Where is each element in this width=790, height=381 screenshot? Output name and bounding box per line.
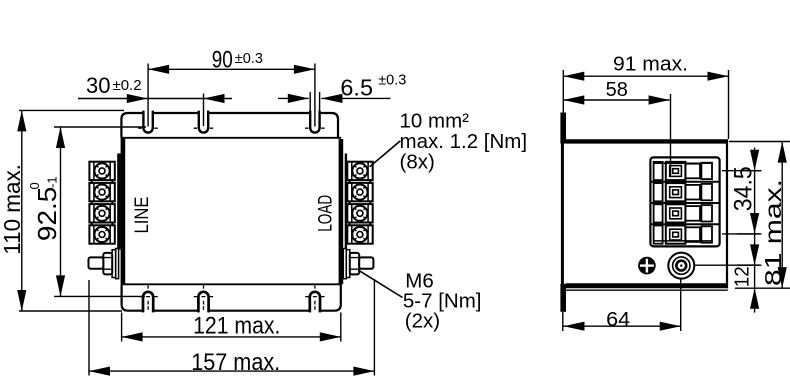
svg-text:90: 90 bbox=[212, 46, 233, 73]
phillips screw bbox=[639, 258, 655, 274]
svg-text:±0.3: ±0.3 bbox=[235, 51, 263, 67]
top slot 2 centre marks bbox=[194, 127, 214, 129]
svg-text:30: 30 bbox=[86, 73, 110, 98]
svg-text:-1: -1 bbox=[45, 176, 60, 188]
left terminal 2 bbox=[89, 183, 114, 201]
top slot 2 bbox=[200, 111, 207, 115]
side terminal block outline bbox=[650, 157, 719, 246]
left terminal block base plate bbox=[117, 154, 121, 250]
svg-text:max. 1.2 [Nm]: max. 1.2 [Nm] bbox=[400, 130, 528, 153]
svg-text:81 max.: 81 max. bbox=[760, 179, 786, 286]
top slot 1 bbox=[145, 111, 152, 115]
right M6 stud washers bbox=[343, 249, 346, 279]
right M6 stud shaft bbox=[359, 257, 373, 268]
left M6 stud washers bbox=[116, 249, 119, 279]
right M6 stud nut bbox=[350, 253, 359, 275]
svg-text:(8x): (8x) bbox=[400, 151, 435, 174]
svg-text:LINE: LINE bbox=[132, 197, 153, 234]
leader 10mm2 bbox=[370, 141, 401, 167]
dimension 64 line bbox=[564, 325, 681, 327]
bottom slot 1 bbox=[144, 308, 151, 312]
leader M6 bbox=[359, 270, 403, 297]
side body right edge bbox=[726, 140, 728, 289]
svg-text:110 max.: 110 max. bbox=[0, 164, 25, 255]
side terminal row separators bbox=[652, 182, 720, 224]
bottom slot 1 centre marks bbox=[138, 285, 157, 309]
flange bottom extension line right bbox=[735, 287, 790, 289]
svg-text:±0.2: ±0.2 bbox=[113, 77, 142, 94]
top slot 3 bbox=[311, 111, 318, 115]
dimension 64 extension lines bbox=[563, 280, 681, 332]
dimension 92.5 line bbox=[60, 127, 62, 296]
svg-text:64: 64 bbox=[606, 309, 630, 331]
dimension 92.5 extension lines bbox=[54, 127, 146, 296]
bottom mounting flange bbox=[122, 284, 341, 310]
svg-text:58: 58 bbox=[606, 79, 628, 101]
dimension 34.5 and 12 line bbox=[754, 148, 756, 313]
left terminal 3 bbox=[89, 204, 114, 222]
dimension 91 max. line bbox=[563, 75, 728, 77]
svg-text:12: 12 bbox=[732, 266, 754, 287]
body top line bbox=[121, 137, 341, 139]
dimension 81 max. line bbox=[781, 142, 783, 289]
dimension 110 max. extension lines bbox=[19, 110, 124, 311]
dimension 90 extension lines slot1 slot3 bbox=[148, 64, 315, 127]
top slot 1 centre marks bbox=[138, 127, 157, 129]
side mounting flange bar bbox=[560, 113, 566, 144]
top mounting flange bbox=[121, 113, 338, 138]
left terminal 4 bbox=[89, 225, 114, 243]
dimension 58 extension line bbox=[670, 94, 672, 176]
stud centre extension line bbox=[695, 264, 762, 266]
bottom slot 3 centre marks bbox=[305, 285, 325, 309]
dimension 6.5 line bbox=[278, 97, 390, 99]
svg-text:0: 0 bbox=[27, 182, 42, 189]
svg-text:91 max.: 91 max. bbox=[613, 53, 688, 76]
body right edge bbox=[339, 139, 344, 284]
side base plate bottom line bbox=[565, 289, 727, 291]
side terminal row 1 bbox=[654, 162, 712, 180]
side terminal row 3 bbox=[654, 204, 712, 222]
right terminal 4 bbox=[347, 225, 372, 243]
dimension 6.5 extension lines bbox=[310, 92, 319, 113]
bottom slot 2 bbox=[200, 308, 207, 312]
svg-text:157 max.: 157 max. bbox=[191, 349, 280, 376]
dimension 157 extension lines bbox=[89, 279, 374, 376]
side body top edge bbox=[565, 139, 727, 143]
right terminal 3 bbox=[347, 204, 372, 222]
svg-text:10 mm²: 10 mm² bbox=[400, 109, 470, 132]
left terminal 1 bbox=[89, 162, 114, 180]
svg-text:34.5: 34.5 bbox=[730, 166, 758, 211]
dimension 90 line bbox=[148, 68, 315, 70]
right terminal 1 bbox=[347, 162, 372, 180]
terminal gap bridges bbox=[92, 163, 113, 243]
side terminal row 2 bbox=[654, 183, 712, 201]
left M6 stud nut bbox=[103, 253, 112, 275]
body top extension line right bbox=[729, 141, 790, 143]
top slot 3 centre marks bbox=[305, 127, 325, 129]
stud end view bbox=[668, 253, 694, 279]
bottom slot 3 bbox=[311, 308, 318, 312]
dimension 91 max. extension lines bbox=[563, 70, 728, 139]
dimension 121 extension lines bbox=[122, 313, 341, 342]
row extension lines right bbox=[722, 171, 762, 234]
dimension 157 line bbox=[89, 370, 374, 372]
dimension 58 line bbox=[563, 99, 669, 101]
right terminal block base plate bbox=[345, 154, 347, 250]
svg-text:6.5: 6.5 bbox=[340, 74, 373, 100]
bottom slot 2 centre marks bbox=[194, 285, 214, 309]
side body bottom edge bbox=[565, 283, 727, 288]
dimension 30 line bbox=[78, 98, 232, 100]
side terminal row 4 bbox=[654, 226, 712, 244]
right terminal 2 bbox=[347, 183, 372, 201]
dimension 110 max. line bbox=[21, 110, 23, 311]
svg-text:(2x): (2x) bbox=[405, 309, 440, 332]
svg-text:±0.3: ±0.3 bbox=[378, 73, 406, 89]
dimension 121 line bbox=[122, 336, 341, 338]
dimension 30 extension line slot2 bbox=[203, 94, 205, 127]
body left edge bbox=[121, 138, 126, 284]
svg-text:121 max.: 121 max. bbox=[193, 313, 280, 340]
left M6 stud shaft bbox=[89, 257, 104, 268]
svg-text:LOAD: LOAD bbox=[316, 195, 337, 232]
body bottom line bbox=[122, 283, 341, 285]
svg-text:92.5: 92.5 bbox=[32, 187, 62, 241]
